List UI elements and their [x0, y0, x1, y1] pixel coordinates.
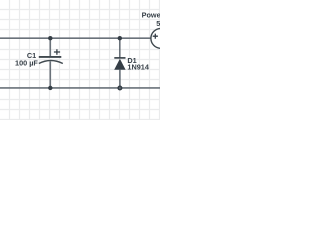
wire: top rail (net VCC) [0, 37, 151, 39]
svg-text:Power: Power [142, 10, 160, 19]
node junction: C1 top on rail [48, 36, 52, 40]
svg-text:100 µF: 100 µF [15, 58, 38, 67]
diode D1 (cathode up) [114, 58, 125, 70]
power source V1 (circle, partly off-canvas) [151, 29, 171, 49]
node junction: C1 bottom on rail [48, 86, 52, 90]
svg-text:5 V: 5 V [156, 19, 160, 28]
node junction: D1 top on rail [118, 36, 122, 40]
wire: bottom rail (net GND) [0, 87, 160, 89]
svg-text:1N914: 1N914 [127, 63, 149, 72]
capacitor C1 [39, 49, 63, 63]
terminal node: D1 anode on bottom rail [117, 86, 122, 91]
wire: C1 bottom lead [49, 61, 51, 88]
wire: D1 bottom lead [119, 70, 121, 88]
wire: D1 top lead [119, 38, 121, 58]
wire: C1 top lead [49, 38, 51, 57]
background grid (decorative) [0, 0, 160, 120]
